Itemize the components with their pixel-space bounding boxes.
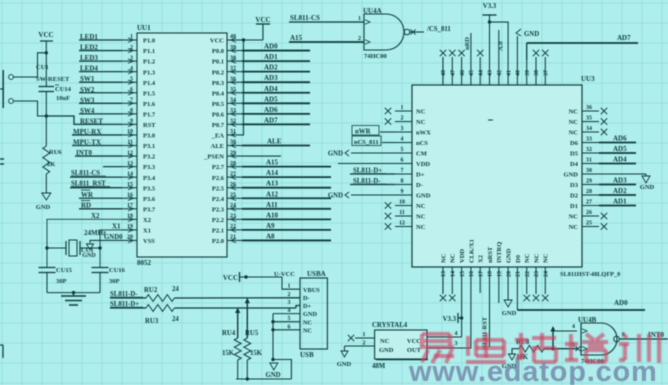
svg-text:AD7: AD7	[264, 116, 278, 124]
svg-text:24: 24	[230, 203, 236, 209]
svg-text:V3.3: V3.3	[443, 316, 457, 323]
svg-text:NC: NC	[569, 130, 579, 137]
svg-text:24MHz: 24MHz	[84, 229, 106, 237]
svg-text:1: 1	[130, 34, 133, 40]
svg-text:D-: D-	[303, 295, 310, 302]
svg-text:1: 1	[363, 332, 366, 338]
svg-text:29: 29	[586, 179, 592, 185]
power V3.3 at UU3 pin 15 and crystal VCC	[427, 282, 463, 337]
svg-text:P2.7: P2.7	[212, 164, 225, 171]
svg-text:7: 7	[130, 98, 133, 104]
svg-text:39: 39	[230, 45, 236, 51]
svg-text:6: 6	[130, 87, 133, 93]
svg-text:P1.7: P1.7	[143, 111, 156, 118]
svg-text:15K: 15K	[222, 350, 235, 357]
power symbol VCC (reset circuit)	[38, 31, 53, 53]
svg-text:NC: NC	[569, 214, 579, 221]
junction USBA pin 5	[271, 320, 300, 323]
net A10 wire from UU1 P2.2	[242, 211, 331, 219]
net INT0 wire to UU1 pin 12	[75, 149, 122, 157]
svg-text:GND: GND	[502, 310, 517, 317]
net SL811-CS wire to UU4A pin 1	[289, 14, 364, 22]
svg-text:P2.4: P2.4	[212, 196, 225, 203]
svg-text:VCC: VCC	[407, 338, 421, 345]
capacitor CU14 10uF	[39, 53, 72, 116]
svg-text:24: 24	[172, 316, 179, 323]
svg-text:D+: D+	[303, 303, 312, 310]
wire caps common to earth ground	[47, 292, 100, 294]
svg-text:16: 16	[469, 271, 475, 277]
net nWR wire to UU1 pin 16	[79, 190, 122, 199]
svg-text:X2: X2	[91, 212, 100, 220]
svg-text:AD0: AD0	[614, 299, 628, 307]
svg-text:GND: GND	[506, 248, 513, 263]
net nCS_811 wire to UU3 pin 4	[352, 136, 395, 146]
svg-text:RU4: RU4	[222, 330, 236, 337]
ground port at UU3 pin 9	[328, 192, 395, 200]
svg-text:A9: A9	[266, 222, 275, 230]
svg-text:GND: GND	[337, 361, 352, 368]
wire to UU4B input pin 4	[553, 330, 577, 332]
net AD7 wire from UU1 P0.7	[242, 116, 310, 124]
svg-text:P2.1: P2.1	[212, 228, 224, 235]
svg-text:VCC: VCC	[38, 31, 53, 39]
wire UU3 pin 19 INTRQ	[498, 282, 500, 303]
net LED1 wire to UU1 pin 1	[79, 33, 122, 41]
svg-text:CU14: CU14	[55, 86, 72, 93]
net ALE wire from UU1 pin 30	[242, 138, 310, 146]
svg-text:P2.3: P2.3	[212, 206, 225, 213]
svg-text:36: 36	[586, 105, 592, 111]
svg-text:AD6: AD6	[613, 135, 627, 143]
svg-text:A8: A8	[266, 232, 275, 240]
svg-text:AD0: AD0	[264, 43, 278, 51]
svg-text:AD3: AD3	[613, 177, 627, 185]
svg-text:P1.1: P1.1	[143, 48, 155, 55]
UU4A output wire and net nCS_811	[410, 26, 451, 35]
svg-text:AD5: AD5	[264, 95, 278, 103]
svg-text:RST: RST	[143, 122, 156, 129]
svg-text:RU2: RU2	[144, 287, 158, 294]
svg-text:32: 32	[586, 147, 592, 153]
net A8 wire from UU1 P2.0	[242, 232, 331, 240]
junction EA-VCC	[242, 38, 245, 41]
svg-text:GND: GND	[328, 193, 343, 200]
net SL811-RST wire at UU3 pin 18	[482, 282, 490, 351]
svg-text:26: 26	[230, 182, 236, 188]
svg-text:RU5: RU5	[245, 330, 259, 337]
svg-text:RU6: RU6	[49, 149, 62, 156]
svg-text:27: 27	[586, 200, 592, 206]
svg-text:A11: A11	[266, 201, 278, 209]
svg-text:2: 2	[401, 116, 404, 122]
net AD3 wire from UU1 P0.3	[242, 74, 310, 82]
svg-text:A10: A10	[266, 211, 279, 219]
svg-text:SW2: SW2	[80, 86, 95, 94]
svg-text:48M: 48M	[372, 363, 386, 370]
svg-text:36: 36	[230, 76, 236, 82]
svg-text:RESET: RESET	[80, 117, 103, 125]
wire UU3 pin 6 VDD	[338, 163, 395, 165]
svg-text:30: 30	[230, 140, 236, 146]
svg-text:3: 3	[455, 341, 458, 347]
svg-text:D4: D4	[570, 161, 579, 168]
svg-text:VCC: VCC	[255, 16, 270, 24]
svg-text:P3.3: P3.3	[143, 164, 156, 171]
svg-text:35: 35	[230, 87, 236, 93]
ground at UU3 pin 30	[599, 174, 655, 191]
svg-text:WR: WR	[81, 191, 94, 199]
switch CU1 SW-RESET	[0, 64, 70, 108]
svg-text:A13: A13	[266, 180, 279, 188]
svg-text:35: 35	[586, 116, 592, 122]
svg-text:D0: D0	[515, 255, 522, 263]
svg-text:D5: D5	[570, 151, 579, 158]
svg-text:NC: NC	[380, 338, 390, 345]
svg-text:3: 3	[130, 55, 133, 61]
net AD6 wire from UU3 pin 33	[599, 135, 636, 143]
svg-text:44: 44	[478, 70, 484, 76]
svg-text:42: 42	[497, 70, 503, 76]
net AD5 wire from UU3 pin 32	[599, 145, 636, 153]
svg-text:P1.2: P1.2	[143, 59, 155, 66]
svg-text:P0.1: P0.1	[212, 59, 224, 66]
svg-text:P0.5: P0.5	[212, 101, 225, 108]
wire RU2 to USBA pin 2 D-	[174, 297, 300, 299]
resistor RU2 24	[144, 286, 179, 301]
svg-text:AD2: AD2	[264, 64, 278, 72]
crystal CC1 24MHz	[47, 229, 106, 256]
no-connect marks UU3 bottom pins 13 14 22 23 24	[440, 282, 549, 301]
UU3 bottom pin stubs numbers and names	[440, 239, 549, 282]
resistor RU3 24	[145, 305, 179, 325]
ground port at UU3 pin 5 CM	[328, 150, 395, 158]
svg-text:P0.0: P0.0	[212, 48, 224, 55]
svg-text:P3.2: P3.2	[143, 154, 155, 161]
net A15 wire to UU4A pin 2	[289, 34, 364, 42]
junction RESET node	[45, 114, 48, 117]
svg-text:13: 13	[441, 271, 447, 277]
net INT0 wire from UU4B output	[620, 331, 668, 339]
crystal pin 4 number	[455, 331, 458, 337]
svg-text:P0.4: P0.4	[212, 90, 225, 97]
svg-text:10: 10	[127, 129, 133, 135]
net SW1 wire to UU1 pin 5	[79, 75, 122, 83]
svg-text:25: 25	[230, 192, 236, 198]
svg-text:14: 14	[127, 171, 133, 177]
svg-text:CM: CM	[416, 151, 427, 158]
svg-text:10uF: 10uF	[56, 95, 70, 102]
net nRD rotated label at UU3 pin 45	[464, 33, 471, 60]
svg-text:AD7: AD7	[617, 34, 631, 42]
net AD4 wire from UU3 pin 31	[599, 156, 636, 164]
wire switch bottom contact to RESET node	[14, 101, 47, 116]
svg-text:GND: GND	[416, 193, 431, 200]
svg-text:CC1: CC1	[81, 247, 94, 254]
svg-text:VDD: VDD	[416, 161, 430, 168]
svg-text:34: 34	[586, 126, 592, 132]
svg-text:nCS_811: nCS_811	[354, 139, 379, 146]
svg-text:4: 4	[572, 324, 575, 330]
svg-text:41: 41	[506, 70, 512, 76]
svg-text:INTRQ: INTRQ	[496, 242, 503, 263]
crystal pin 1 NC no-connect	[348, 332, 375, 341]
svg-text:AD3: AD3	[264, 74, 278, 82]
svg-text:9: 9	[130, 119, 133, 125]
ground below RU6	[36, 174, 51, 211]
junction crystal left	[45, 246, 48, 249]
svg-text:29: 29	[230, 150, 236, 156]
svg-text:15K: 15K	[250, 350, 263, 357]
wire USBA pin 4 GND down	[273, 314, 300, 360]
watermark red characters	[420, 333, 659, 363]
svg-text:UU1: UU1	[137, 24, 151, 32]
junction D- to RU5	[245, 298, 250, 338]
microcontroller UU1 8052	[137, 24, 227, 267]
net LED3 wire to UU1 pin 3	[79, 54, 122, 62]
net A12 wire from UU1 P2.4	[242, 190, 331, 198]
svg-text:32: 32	[230, 119, 236, 125]
crystal pin 3 number	[455, 341, 458, 347]
svg-text:48: 48	[441, 70, 447, 76]
net nWR wire to UU3 pin 3	[352, 126, 395, 136]
svg-text:4: 4	[401, 137, 404, 143]
svg-text:18: 18	[488, 271, 494, 277]
net A13 wire from UU1 P2.5	[242, 180, 331, 188]
wire switch top contact to VCC rail	[14, 53, 47, 77]
svg-text:AD1: AD1	[613, 198, 627, 206]
svg-text:28: 28	[586, 189, 592, 195]
wire U-VCC to USBA pin 1 VBUS	[282, 277, 300, 289]
svg-text:7: 7	[401, 168, 404, 174]
resistor RU4 15K	[222, 330, 241, 360]
svg-text:NC: NC	[524, 253, 531, 263]
svg-text:OUT: OUT	[407, 347, 422, 354]
svg-text:RU3: RU3	[145, 318, 159, 325]
svg-text:MPU-TX: MPU-TX	[73, 139, 101, 147]
svg-text:SL811-CS: SL811-CS	[290, 14, 320, 22]
svg-text:A12: A12	[266, 190, 279, 198]
net AD0 wire from UU1 P0.0	[242, 43, 310, 51]
svg-text:2: 2	[130, 45, 133, 51]
crystal pin 2 to ground	[337, 341, 375, 369]
svg-text:NC: NC	[543, 253, 550, 263]
net SL811-D+ wire to UU3 pin 7	[350, 168, 395, 175]
svg-text:A.0: A.0	[497, 41, 504, 51]
svg-text:13: 13	[127, 161, 133, 167]
net A14 wire from UU1 P2.6	[242, 169, 331, 177]
svg-text:31: 31	[230, 129, 236, 135]
svg-text:12: 12	[399, 221, 405, 227]
svg-text:P1.4: P1.4	[143, 80, 156, 87]
svg-text:SW-RESET: SW-RESET	[36, 76, 70, 83]
svg-text:nCS: nCS	[416, 140, 428, 147]
svg-text:30: 30	[586, 168, 592, 174]
no-connect marks UU3 top pins 48 47 46 44 38 37	[440, 50, 549, 60]
net SW3 wire to UU1 pin 7	[79, 96, 122, 104]
net MPU-TX wire to UU1 pin 11	[72, 139, 122, 147]
svg-text:P3.4: P3.4	[143, 175, 156, 182]
svg-text:P0.7: P0.7	[212, 122, 225, 129]
svg-text:3: 3	[288, 300, 291, 306]
svg-text:24: 24	[544, 271, 550, 277]
net RESET wire to UU1 pin 9	[46, 116, 122, 125]
capacitor CU15 30P	[39, 267, 73, 293]
svg-text:P1.0: P1.0	[143, 38, 155, 45]
net AD2 wire from UU1 P0.2	[242, 64, 310, 72]
svg-text:RD: RD	[81, 202, 91, 210]
svg-text:AD6: AD6	[264, 106, 278, 114]
svg-text:/CS_811: /CS_811	[426, 26, 451, 33]
svg-text:34: 34	[230, 98, 236, 104]
svg-text:NC: NC	[569, 119, 579, 126]
svg-text:22: 22	[525, 271, 531, 277]
svg-text:2K: 2K	[47, 161, 55, 168]
USB connector USBA	[288, 270, 328, 359]
svg-text:4: 4	[130, 66, 133, 72]
svg-text:SL811HST-48LQFP_0: SL811HST-48LQFP_0	[560, 271, 620, 278]
svg-text:45: 45	[469, 70, 475, 76]
svg-text:P3.6: P3.6	[143, 196, 156, 203]
junction ground bus	[246, 377, 249, 380]
svg-text:ALE: ALE	[267, 138, 282, 146]
capacitor CU16 30P	[92, 267, 126, 293]
svg-text:USB: USB	[300, 351, 314, 359]
no-connect marks UU3 pins 26 25	[601, 213, 607, 230]
svg-text:P3.5: P3.5	[143, 185, 156, 192]
scan artifact left edge	[0, 159, 4, 358]
svg-text:25: 25	[586, 221, 592, 227]
svg-text:GND0: GND0	[104, 234, 123, 241]
svg-text:VCC: VCC	[210, 38, 224, 45]
svg-text:NC: NC	[303, 319, 313, 326]
svg-text:9: 9	[401, 189, 404, 195]
svg-text:27: 27	[230, 171, 236, 177]
svg-text:2: 2	[288, 292, 291, 298]
svg-text:nWX: nWX	[416, 130, 431, 137]
svg-text:40: 40	[230, 34, 236, 40]
svg-text:SW1: SW1	[80, 75, 95, 83]
UU1 pin names and stubs	[122, 34, 242, 245]
svg-text:VSS: VSS	[143, 238, 155, 245]
wire stub UU1 pin 13	[103, 166, 122, 168]
net nRD wire to UU1 pin 17	[79, 201, 122, 210]
power VCC to U-VCC net	[223, 271, 295, 282]
net SL811-D- wire to UU3 pin 8	[350, 178, 395, 185]
junction D+ to RU4	[235, 308, 240, 339]
net AD5 wire from UU1 P0.5	[242, 95, 310, 103]
net AD7 wire from UU3 pin 39	[527, 34, 638, 60]
svg-text:P2.2: P2.2	[212, 217, 224, 224]
svg-text:21: 21	[230, 235, 236, 241]
wire UU3 pin 16 CLK to crystal OUT	[427, 282, 471, 348]
svg-text:P1.3: P1.3	[143, 69, 156, 76]
svg-text:4: 4	[455, 331, 458, 337]
UU3 top pin stubs and numbers	[441, 60, 549, 85]
wire UU1 _EA pin 31 to VCC	[242, 40, 244, 135]
svg-text:GND: GND	[640, 184, 655, 191]
junction USBA pin 6	[271, 328, 300, 331]
svg-text:8: 8	[130, 108, 133, 114]
net AD1 wire from UU1 P0.1	[242, 53, 310, 61]
ground at RU8 left	[502, 349, 519, 370]
wire RU8 to UU4B input pin 5	[544, 346, 580, 351]
svg-text:NC: NC	[416, 119, 426, 126]
svg-text:D2: D2	[570, 193, 578, 200]
svg-text:20: 20	[506, 271, 512, 277]
svg-text:33: 33	[586, 137, 592, 143]
svg-text:P0.6: P0.6	[212, 111, 225, 118]
svg-text:A15: A15	[266, 159, 279, 167]
svg-text:23: 23	[534, 271, 540, 277]
net SL811-CS wire to UU1 pin 14	[70, 170, 122, 177]
svg-text:AD1: AD1	[264, 53, 278, 61]
net A9 wire from UU1 P2.1	[242, 222, 331, 230]
svg-text:15: 15	[127, 182, 133, 188]
svg-text:X2: X2	[478, 255, 485, 263]
svg-text:GND: GND	[379, 347, 394, 354]
svg-text:NC: NC	[416, 109, 426, 116]
wire RU4 RU5 bottoms to ground bus	[236, 360, 291, 379]
wire stub UU3 pin 17	[479, 282, 481, 293]
svg-text:GND: GND	[303, 311, 317, 318]
svg-text:10: 10	[399, 200, 405, 206]
svg-text:P3.7: P3.7	[143, 206, 156, 213]
svg-text:8: 8	[401, 179, 404, 185]
junction at VCC rail top	[45, 51, 48, 54]
svg-text:P2.0: P2.0	[212, 238, 224, 245]
svg-text:CU16: CU16	[109, 267, 126, 274]
svg-text:D3: D3	[570, 182, 579, 189]
junction earth node	[72, 291, 75, 294]
svg-text:33: 33	[230, 108, 236, 114]
svg-text:39: 39	[525, 70, 531, 76]
svg-text:X1: X1	[143, 228, 151, 235]
svg-text:28: 28	[230, 161, 236, 167]
wire stub UU1 _PSEN pin 29	[242, 155, 281, 157]
svg-text:6: 6	[401, 158, 404, 164]
UU3 right pin stubs and names	[564, 105, 599, 231]
svg-text:5: 5	[130, 76, 133, 82]
svg-text:GND: GND	[36, 204, 51, 211]
svg-text:LED3: LED3	[80, 54, 98, 62]
net A11 wire from UU1 P2.3	[242, 201, 331, 209]
svg-text:LED1: LED1	[80, 33, 98, 41]
net MPU-RX wire to UU1 pin 10	[72, 128, 122, 136]
svg-text:GND: GND	[524, 31, 539, 38]
svg-text:1: 1	[401, 105, 404, 111]
svg-text:NC: NC	[303, 327, 313, 334]
svg-text:19: 19	[127, 224, 133, 230]
svg-text:38: 38	[534, 70, 540, 76]
net GND0 wire UU1 pin 20 VSS to ground	[82, 234, 123, 259]
svg-text:LED4: LED4	[80, 65, 98, 73]
svg-text:P0.3: P0.3	[212, 80, 225, 87]
svg-text:SW3: SW3	[80, 96, 95, 104]
ground port at UU3 pin 40	[516, 29, 539, 60]
net AD4 wire from UU1 P0.4	[242, 85, 310, 93]
svg-text:NC: NC	[569, 224, 579, 231]
svg-text:CU15: CU15	[56, 267, 73, 274]
svg-text:P0.2: P0.2	[212, 69, 224, 76]
svg-text:VDD: VDD	[459, 249, 466, 263]
net SL811-D+ wire with label	[110, 301, 146, 308]
svg-text:NC: NC	[569, 109, 579, 116]
net AD2 wire from UU3 pin 28	[599, 187, 636, 195]
svg-text:D-: D-	[416, 182, 423, 189]
svg-text:VBUS: VBUS	[303, 287, 320, 294]
svg-text:20: 20	[127, 235, 133, 241]
